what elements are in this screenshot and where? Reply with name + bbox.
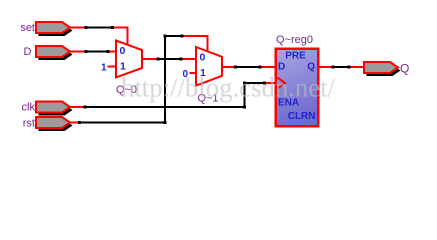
svg-text:1: 1: [101, 63, 107, 74]
label Q (output): [400, 62, 409, 76]
mux Q~0: [116, 41, 142, 78]
label Q~0: [116, 84, 137, 96]
input pin set: [36, 22, 73, 36]
svg-text:Q: Q: [307, 62, 315, 73]
flip-flop Q~reg0 border and pins: [276, 49, 319, 127]
label clk: [22, 102, 36, 114]
svg-text:Q: Q: [400, 62, 409, 76]
svg-text:CLRN: CLRN: [288, 111, 316, 122]
input pin clk: [36, 102, 73, 116]
input pin D: [36, 46, 73, 60]
flip-flop U body fill Q~reg0: [275, 48, 320, 128]
svg-text:http://blog.csdn.net/: http://blog.csdn.net/: [121, 73, 335, 103]
wire clk net: pin to flip-flop clock: [70, 82, 276, 109]
svg-text:rst: rst: [23, 118, 35, 130]
wire flip-flop Q to output pin: [319, 66, 365, 69]
wire D net: pin to Q~0 input 0: [70, 50, 117, 53]
wire Q~0 output to Q~1 input 0: [142, 58, 197, 61]
svg-text:1: 1: [120, 61, 126, 73]
svg-text:PRE: PRE: [285, 51, 306, 62]
svg-text:D: D: [278, 62, 285, 73]
svg-text:set: set: [20, 22, 35, 34]
watermark csdn: [121, 73, 335, 103]
constant 0 into Q~1 input 1: [182, 69, 197, 80]
svg-text:clk: clk: [22, 102, 36, 114]
label set: [20, 22, 35, 34]
label Q~1: [197, 93, 218, 105]
svg-text:0: 0: [120, 45, 126, 57]
label rst: [23, 118, 35, 130]
wire Q~1 output to flip-flop D: [222, 66, 275, 69]
constant 1 into Q~0 input 1: [101, 63, 117, 74]
svg-text:D: D: [24, 46, 32, 58]
svg-text:0: 0: [200, 52, 206, 64]
clock triangle: [278, 78, 286, 89]
wire rst net: pin up and over to Q~1 select: [70, 35, 208, 125]
label Q~reg0: [276, 34, 313, 46]
output pin Q: [364, 62, 401, 76]
wire set net: pin to Q~0 select: [70, 26, 128, 46]
label D: [24, 46, 32, 58]
mux Q~1: [196, 47, 222, 86]
svg-text:Q~reg0: Q~reg0: [276, 34, 313, 46]
input pin rst: [36, 117, 73, 131]
